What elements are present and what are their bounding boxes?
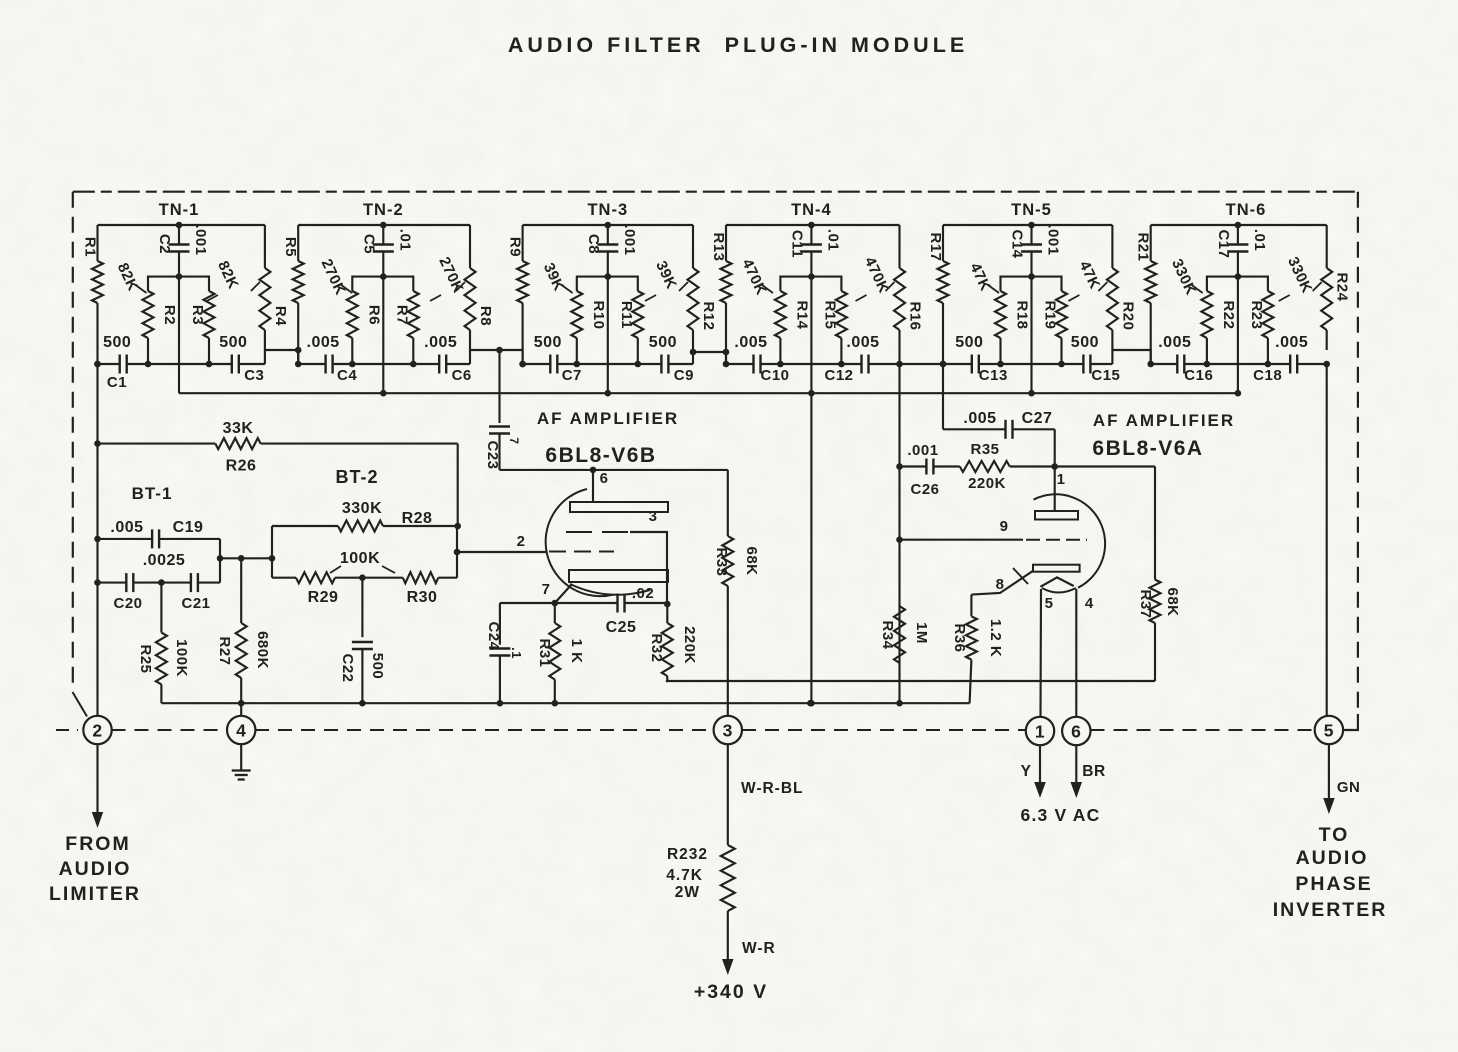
resistor R26 xyxy=(98,438,458,449)
wire terminal 2 lead out xyxy=(92,745,103,829)
svg-text:500: 500 xyxy=(649,334,677,351)
capacitor C7 xyxy=(550,355,557,374)
value 68K of R37 xyxy=(1164,587,1181,616)
svg-text:R232: R232 xyxy=(667,846,708,863)
svg-text:.005: .005 xyxy=(1275,334,1308,351)
terminal 1 xyxy=(1026,717,1054,745)
capacitor C24 xyxy=(489,603,510,707)
wire terminal 5 lead GN xyxy=(1323,745,1335,815)
capacitor C6 xyxy=(439,355,446,374)
svg-text:Y: Y xyxy=(1021,763,1032,780)
wire TN-3 top rail xyxy=(523,222,693,229)
label R36 xyxy=(951,623,968,652)
svg-text:C17: C17 xyxy=(1215,229,1232,258)
svg-text:C24: C24 xyxy=(485,621,502,650)
svg-text:C20: C20 xyxy=(113,595,142,612)
svg-text:1: 1 xyxy=(1057,471,1066,488)
svg-text:2: 2 xyxy=(92,720,102,740)
wire TN-4 to TN-5 bottom link xyxy=(896,361,946,368)
resistor R34 xyxy=(894,606,905,663)
svg-text:R28: R28 xyxy=(402,510,433,527)
value .005 of C27 xyxy=(963,410,996,427)
value 1K of R31 xyxy=(568,639,585,664)
label R20 xyxy=(1119,301,1136,330)
resistor R15 xyxy=(811,277,847,368)
value 100K of R25 xyxy=(173,639,190,677)
pin 7 of V6B xyxy=(542,581,572,606)
value 500 of C7 xyxy=(534,334,562,351)
node TN-1 label xyxy=(159,201,200,219)
dashed border bottom segment terminal 6 to 5 xyxy=(1091,729,1315,731)
resistor R32 xyxy=(662,604,673,681)
value 270K of R5 xyxy=(318,256,353,297)
svg-text:C14: C14 xyxy=(1009,229,1026,258)
capacitor C18 xyxy=(1290,355,1297,374)
value 47K of R20 xyxy=(1068,258,1107,301)
anode plate of V6A xyxy=(1035,511,1078,520)
label C17 xyxy=(1215,229,1232,258)
capacitor C23 xyxy=(489,350,510,470)
label C8 xyxy=(585,234,602,254)
value 500 of C1 xyxy=(103,334,131,351)
svg-text:3: 3 xyxy=(649,508,658,525)
svg-text:68K: 68K xyxy=(1164,587,1181,616)
value 47K of R17 xyxy=(966,260,999,293)
value .005 of C12 xyxy=(846,334,879,351)
svg-text:1M: 1M xyxy=(913,622,930,644)
label R10 xyxy=(590,300,607,329)
wire TN-4 top rail xyxy=(726,222,900,229)
resistor R36 xyxy=(966,595,977,704)
svg-text:R22: R22 xyxy=(1220,300,1237,329)
svg-text:R12: R12 xyxy=(700,301,717,330)
svg-text:R37: R37 xyxy=(1137,589,1154,618)
svg-text:AF AMPLIFIER: AF AMPLIFIER xyxy=(537,409,679,428)
resistor R17 xyxy=(938,225,949,364)
value .005 of C18 xyxy=(1275,334,1308,351)
value 330K of R28 xyxy=(342,500,382,517)
svg-text:R26: R26 xyxy=(226,458,257,475)
label R14 xyxy=(793,300,810,329)
svg-text:W-R-BL: W-R-BL xyxy=(741,780,804,797)
svg-text:C18: C18 xyxy=(1253,367,1282,384)
module enclosure dashed border left xyxy=(72,192,74,688)
svg-text:C27: C27 xyxy=(1022,410,1053,427)
svg-text:100K: 100K xyxy=(340,550,380,567)
wire TN-6 top rail xyxy=(1151,222,1327,229)
label R32 xyxy=(648,633,665,662)
value 500 of C9 xyxy=(649,334,677,351)
terminal 3 xyxy=(714,716,742,744)
resistor R28 xyxy=(272,521,461,532)
resistor R232 xyxy=(721,845,735,960)
resistor R23 xyxy=(1238,277,1274,368)
value 100K of R29 R30 xyxy=(330,550,395,573)
label C27 xyxy=(1022,410,1053,427)
svg-text:R20: R20 xyxy=(1119,301,1136,330)
svg-text:C4: C4 xyxy=(337,367,357,384)
value 470K of R13 xyxy=(738,256,773,297)
svg-text:.001: .001 xyxy=(621,224,638,255)
label R27 xyxy=(216,636,233,665)
svg-text:6BL8-V6A: 6BL8-V6A xyxy=(1092,437,1203,460)
svg-text:R1: R1 xyxy=(82,237,99,257)
value 470K of R16 xyxy=(856,254,895,301)
value .01 of C17 xyxy=(1251,229,1268,251)
wire terminal 1 lead Y xyxy=(1034,746,1046,799)
svg-text:R7: R7 xyxy=(393,305,410,325)
resistor R10 xyxy=(571,277,608,368)
capacitor C9 xyxy=(661,355,668,374)
node TN-4 label xyxy=(791,201,832,219)
svg-text:.005: .005 xyxy=(734,334,767,351)
svg-text:BR: BR xyxy=(1082,763,1105,780)
module enclosure border right corner to terminal 5 xyxy=(1344,714,1358,730)
pin 8 of V6A xyxy=(971,568,1033,595)
resistor R27 xyxy=(236,558,247,716)
resistor R5 xyxy=(293,225,304,364)
svg-text:100K: 100K xyxy=(173,639,190,677)
svg-text:R3: R3 xyxy=(189,305,206,325)
svg-text:C16: C16 xyxy=(1184,367,1213,384)
label C12 xyxy=(824,367,853,384)
label C15 xyxy=(1091,367,1120,384)
module enclosure dashed border top xyxy=(73,191,1358,193)
label W-R-BL xyxy=(741,780,804,797)
wire jog TN-5 to TN-6 xyxy=(1112,350,1150,364)
value .0025 of C20 C21 xyxy=(143,552,186,569)
node TN-6 label xyxy=(1226,201,1267,219)
svg-text:R23: R23 xyxy=(1248,300,1265,329)
wire terminal 5 column xyxy=(1328,715,1330,717)
resistor R29 xyxy=(272,572,366,583)
svg-text:500: 500 xyxy=(534,334,562,351)
dashed border bottom segment terminal 4 to 3 xyxy=(255,729,714,731)
svg-text:.01: .01 xyxy=(824,229,841,251)
svg-text:1: 1 xyxy=(1035,721,1045,741)
wire TN-4 centre drop to lower bus xyxy=(808,277,815,707)
anode plate of V6B xyxy=(570,502,668,512)
resistor R33 xyxy=(722,470,733,716)
svg-text:R33: R33 xyxy=(713,547,730,576)
svg-text:TN-2: TN-2 xyxy=(363,201,404,219)
label C4 xyxy=(337,367,357,384)
capacitor C27 xyxy=(943,364,1055,467)
svg-text:1 K: 1 K xyxy=(568,639,585,664)
label R35 xyxy=(970,441,999,458)
wire jog TN-1 to TN-2 xyxy=(265,347,302,364)
svg-text:.005: .005 xyxy=(963,410,996,427)
label R26 xyxy=(226,458,257,475)
svg-text:R8: R8 xyxy=(477,306,494,326)
label C9 xyxy=(674,367,694,384)
wire lower bus xyxy=(161,700,969,707)
label R16 xyxy=(907,301,924,330)
label 6.3 V AC xyxy=(1021,805,1101,825)
svg-text:R21: R21 xyxy=(1135,232,1152,261)
wire TN-2 centre drop to bus xyxy=(380,277,387,397)
svg-text:TO: TO xyxy=(1319,824,1350,846)
label C1 xyxy=(107,374,127,391)
wire terminal 6 lead BR xyxy=(1071,746,1083,798)
svg-text:R29: R29 xyxy=(308,589,339,606)
label R37 xyxy=(1137,589,1154,618)
svg-text:TN-1: TN-1 xyxy=(159,201,200,219)
svg-text:C25: C25 xyxy=(606,619,637,636)
svg-text:LIMITER: LIMITER xyxy=(49,883,141,905)
label C16 xyxy=(1184,367,1213,384)
svg-text:7: 7 xyxy=(507,437,521,444)
svg-text:C10: C10 xyxy=(760,367,789,384)
wire TN-6 right drop to terminal 5 xyxy=(1323,361,1330,717)
value 220K of R32 xyxy=(681,626,698,664)
svg-text:C13: C13 xyxy=(979,367,1008,384)
resistor R6 xyxy=(347,277,384,368)
resistor R22 xyxy=(1201,277,1238,368)
value 39K of R12 xyxy=(645,258,688,301)
label R30 xyxy=(407,589,438,606)
label R28 xyxy=(402,510,433,527)
label R3 xyxy=(189,305,206,325)
label R25 xyxy=(137,644,154,673)
wire TN-1 bottom row xyxy=(94,361,265,368)
title AUDIO FILTER PLUG-IN MODULE xyxy=(508,33,968,57)
svg-text:C23: C23 xyxy=(484,440,501,469)
svg-text:2W: 2W xyxy=(675,884,700,901)
module enclosure dashed border right xyxy=(1357,192,1359,714)
svg-text:7: 7 xyxy=(542,581,551,598)
wire TN-3 centre drop to bus xyxy=(605,277,612,397)
label C23 xyxy=(484,440,501,469)
label R232 4.7K 2W xyxy=(666,846,708,901)
value .1 of C23 xyxy=(507,437,521,444)
resistor R12 xyxy=(688,225,699,350)
svg-text:6.3 V AC: 6.3 V AC xyxy=(1021,805,1101,825)
value 500 of C22 xyxy=(369,653,386,680)
svg-text:5: 5 xyxy=(1045,595,1054,612)
svg-text:500: 500 xyxy=(369,653,386,680)
ground xyxy=(232,744,251,780)
svg-text:C15: C15 xyxy=(1091,367,1120,384)
resistor R14 xyxy=(775,277,812,368)
wire input column from TN-1 left to terminal 2 xyxy=(94,361,101,717)
value 330K of R21 xyxy=(1168,256,1203,297)
label Y xyxy=(1021,763,1032,780)
grid pin 3 of V6B xyxy=(566,508,667,604)
svg-text:C12: C12 xyxy=(824,367,853,384)
dashed border bottom segment terminal 2 to 4 xyxy=(56,729,228,731)
value .001 of C2 xyxy=(192,224,209,255)
capacitor C10 xyxy=(754,355,761,374)
svg-text:R6: R6 xyxy=(365,305,382,325)
label R11 xyxy=(618,301,635,329)
label R4 xyxy=(272,306,289,326)
svg-text:500: 500 xyxy=(103,334,131,351)
label R13 xyxy=(710,232,727,261)
pin 1 of V6A xyxy=(1055,467,1066,512)
label C20 xyxy=(113,595,142,612)
label R19 xyxy=(1042,300,1059,329)
svg-text:AUDIO FILTER PLUG-IN MODULE: AUDIO FILTER PLUG-IN MODULE xyxy=(508,33,968,57)
svg-text:5: 5 xyxy=(1324,720,1334,740)
label R33 xyxy=(713,547,730,576)
value .01 of C11 xyxy=(824,229,841,251)
grid pin 9 of V6A xyxy=(900,518,1088,540)
svg-text:C3: C3 xyxy=(244,367,264,384)
capacitor C14 xyxy=(1021,225,1042,280)
pin 4 of V6A xyxy=(1076,589,1094,716)
svg-text:6: 6 xyxy=(1071,721,1081,741)
resistor R8 xyxy=(465,225,476,350)
dashed border bottom segment terminal 3 to 1 xyxy=(742,729,1026,731)
resistor R4 xyxy=(259,225,270,350)
svg-text:C6: C6 xyxy=(452,367,472,384)
label C18 xyxy=(1253,367,1282,384)
label C26 xyxy=(910,481,939,498)
svg-text:R15: R15 xyxy=(821,300,838,329)
svg-text:4: 4 xyxy=(236,720,246,740)
label R34 xyxy=(879,620,896,649)
svg-text:220K: 220K xyxy=(681,626,698,664)
svg-text:C19: C19 xyxy=(173,519,204,536)
svg-text:C26: C26 xyxy=(910,481,939,498)
svg-text:TN-5: TN-5 xyxy=(1011,201,1052,219)
label R24 xyxy=(1334,272,1351,301)
wire TN-5 centre drop to bus xyxy=(1028,277,1035,397)
svg-text:C9: C9 xyxy=(674,367,694,384)
value .01 of C5 xyxy=(396,229,413,251)
label AF AMPLIFIER right xyxy=(1093,411,1235,430)
label C19 xyxy=(173,519,204,536)
label C21 xyxy=(181,595,210,612)
svg-text:330K: 330K xyxy=(342,500,382,517)
resistor R7 xyxy=(383,277,419,368)
svg-text:C11: C11 xyxy=(788,230,805,258)
label C10 xyxy=(760,367,789,384)
wire R26 right corner down to BT-2 xyxy=(457,444,459,526)
label +340 V xyxy=(694,981,768,1003)
resistor R3 xyxy=(179,277,215,368)
label R8 xyxy=(477,306,494,326)
node TN-3 label xyxy=(587,201,628,219)
capacitor C20 and C21 row xyxy=(98,573,221,592)
capacitor C4 xyxy=(326,355,333,374)
label C6 xyxy=(452,367,472,384)
svg-text:.005: .005 xyxy=(424,334,457,351)
wire BT-2 left side xyxy=(271,526,273,578)
wire TN-2 bottom row xyxy=(295,361,470,368)
wire V6B plate rail xyxy=(500,467,728,474)
svg-text:500: 500 xyxy=(219,334,247,351)
svg-text:TN-3: TN-3 xyxy=(587,201,628,219)
svg-text:C8: C8 xyxy=(585,234,602,254)
value 680K of R27 xyxy=(254,631,271,669)
capacitor C1 xyxy=(120,355,127,374)
node TN-2 label xyxy=(363,201,404,219)
svg-text:INVERTER: INVERTER xyxy=(1273,899,1388,921)
label R2 xyxy=(161,305,178,325)
svg-text:8: 8 xyxy=(996,576,1005,593)
capacitor C8 xyxy=(597,225,618,280)
label FROM AUDIO LIMITER xyxy=(49,833,141,905)
capacitor C25 xyxy=(555,594,671,613)
value 82K of R1 xyxy=(114,260,147,293)
resistor R16 xyxy=(894,225,905,364)
capacitor C22 xyxy=(352,578,373,707)
terminal 6 xyxy=(1062,717,1090,745)
svg-text:C5: C5 xyxy=(360,234,377,254)
svg-text:1.2 K: 1.2 K xyxy=(987,619,1004,657)
svg-text:R32: R32 xyxy=(648,633,665,662)
node TN-5 label xyxy=(1011,201,1052,219)
svg-text:R13: R13 xyxy=(710,232,727,261)
resistor R11 xyxy=(608,277,644,368)
wire TN-2 top rail xyxy=(298,222,470,229)
label C13 xyxy=(979,367,1008,384)
svg-text:.001: .001 xyxy=(907,442,938,459)
wire lower rail R32 to R37 xyxy=(666,680,1155,682)
value .001 of C14 xyxy=(1045,224,1062,255)
capacitor C13 xyxy=(972,355,979,374)
svg-text:R14: R14 xyxy=(793,300,810,329)
svg-text:AUDIO: AUDIO xyxy=(1296,847,1369,869)
label R7 xyxy=(393,305,410,325)
value .005 of C16 xyxy=(1158,334,1191,351)
label R21 xyxy=(1135,232,1152,261)
svg-text:.001: .001 xyxy=(192,224,209,255)
grid pin 2 of V6B xyxy=(457,533,614,552)
svg-text:AF AMPLIFIER: AF AMPLIFIER xyxy=(1093,411,1235,430)
svg-text:4: 4 xyxy=(1085,595,1094,612)
svg-text:BT-1: BT-1 xyxy=(132,484,173,503)
svg-text:.005: .005 xyxy=(307,334,340,351)
svg-text:680K: 680K xyxy=(254,631,271,669)
svg-text:R19: R19 xyxy=(1042,300,1059,329)
value 500 of C3 xyxy=(219,334,247,351)
svg-text:.1: .1 xyxy=(509,647,524,659)
label C14 xyxy=(1009,229,1026,258)
svg-text:R11: R11 xyxy=(618,301,635,329)
cathode of V6B xyxy=(569,570,668,595)
wire TN-3 bottom row xyxy=(519,361,693,368)
resistor R31 xyxy=(549,603,560,707)
terminal 2 xyxy=(83,716,111,744)
value 500 of C15 xyxy=(1071,334,1099,351)
wire BT-2 right side xyxy=(454,526,461,578)
wire TN-4 bottom row xyxy=(723,361,900,368)
value .005 of C4 xyxy=(307,334,340,351)
svg-text:R25: R25 xyxy=(137,644,154,673)
label C24 xyxy=(485,621,502,650)
svg-text:.02: .02 xyxy=(632,585,654,602)
value .001 of C26 xyxy=(907,442,938,459)
capacitor C19 xyxy=(98,529,221,548)
svg-text:R18: R18 xyxy=(1014,300,1031,329)
capacitor C16 xyxy=(1177,355,1184,374)
resistor R13 xyxy=(721,225,732,364)
svg-text:500: 500 xyxy=(1071,334,1099,351)
svg-text:4.7K: 4.7K xyxy=(666,867,703,884)
value .001 of C8 xyxy=(621,224,638,255)
svg-text:R24: R24 xyxy=(1334,272,1351,301)
svg-text:R27: R27 xyxy=(216,636,233,665)
value 33K of R26 xyxy=(223,420,254,437)
svg-text:R36: R36 xyxy=(951,623,968,652)
svg-text:R30: R30 xyxy=(407,589,438,606)
label R15 xyxy=(821,300,838,329)
label R23 xyxy=(1248,300,1265,329)
svg-text:C2: C2 xyxy=(156,234,173,254)
